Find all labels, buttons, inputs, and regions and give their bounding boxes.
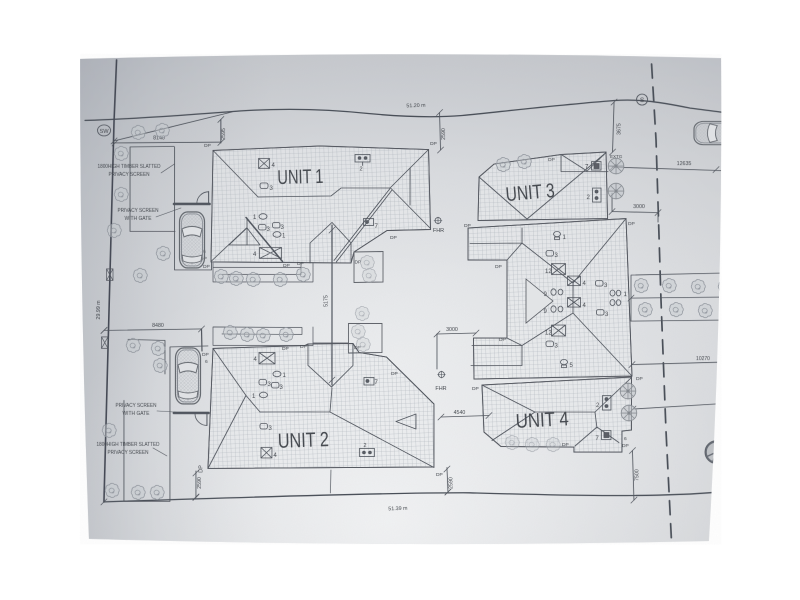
unit 2 porch gable: [308, 343, 353, 387]
unit 2 vent symbols: [252, 352, 379, 459]
svg-text:PRIVACY SCREEN: PRIVACY SCREEN: [115, 403, 156, 409]
unit 4 extension hip: [574, 427, 622, 452]
privacy screen annotations unit 1: [98, 164, 161, 222]
svg-text:PRIVACY SCREEN: PRIVACY SCREEN: [118, 208, 159, 214]
car 3: [694, 121, 746, 144]
dim 2595 entry: [221, 128, 227, 140]
north-west boundary segment: [114, 112, 232, 141]
privacy screen lines unit 1: [130, 146, 175, 231]
unit 2 valley to porch: [330, 388, 332, 412]
svg-text:WITH GATE: WITH GATE: [122, 411, 149, 417]
unit 1 terrace: [213, 263, 313, 282]
svg-text:DP: DP: [283, 263, 290, 269]
svg-text:3000: 3000: [633, 204, 645, 210]
central building vent symbols: [543, 231, 627, 369]
entry fence unit 2: [200, 329, 203, 351]
right horizontal line at y406: [633, 404, 722, 410]
unit 3 roof hatched: [478, 152, 608, 221]
gate unit 2: [174, 412, 209, 415]
unit 1 porch gable: [310, 222, 351, 263]
svg-text:7500: 7500: [634, 469, 640, 481]
entry dim line unit 1: [220, 119, 222, 142]
unit 2 roof hatched: [208, 343, 434, 468]
svg-text:DP: DP: [548, 157, 555, 163]
privacy screen lines unit 2: [124, 339, 170, 501]
dim 10270: [629, 356, 722, 368]
unit 1 hip to corner: [211, 228, 247, 262]
FHR unit 1: [433, 217, 444, 234]
svg-text:PRIVACY SCREEN: PRIVACY SCREEN: [109, 172, 150, 178]
svg-text:DP: DP: [297, 261, 304, 267]
unit 1 valley pair: [334, 188, 392, 262]
trees unit2 terrace: [223, 325, 237, 339]
svg-text:2595: 2595: [221, 128, 227, 140]
unit 3 vent symbols: [585, 162, 601, 203]
dim 4540: [438, 410, 492, 420]
driveway lines unit 1: [175, 206, 212, 270]
svg-text:51.20 m: 51.20 m: [406, 103, 426, 110]
dim 2590 top right: [437, 110, 448, 154]
unit 1 NE hip: [390, 149, 429, 188]
svg-text:SW: SW: [100, 129, 110, 135]
dim 2590 bottom left: [193, 465, 205, 500]
svg-text:DP: DP: [282, 346, 289, 352]
unit 1 alfresco court: [354, 251, 383, 282]
svg-text:DP: DP: [391, 371, 398, 377]
svg-text:5175: 5175: [323, 295, 329, 307]
gate swing arc unit 1: [197, 192, 209, 204]
dim 3675: [610, 99, 623, 155]
driveway lines unit 2: [170, 346, 208, 414]
svg-text:2: 2: [360, 166, 363, 172]
unit 4 roof hatched: [482, 377, 632, 452]
svg-text:DP: DP: [622, 443, 629, 449]
unit 2 gable right: [396, 414, 416, 429]
central bottom wing lines: [471, 338, 522, 366]
path line below unit 2: [329, 470, 332, 493]
fence post 2: [101, 337, 108, 349]
svg-text:WITH GATE: WITH GATE: [125, 216, 152, 222]
svg-text:4540: 4540: [454, 410, 466, 416]
svg-text:UNIT 4: UNIT 4: [515, 408, 569, 433]
dim 3000 mid: [434, 327, 479, 369]
boundary ticks: [101, 138, 722, 505]
trees left column: [131, 125, 145, 139]
unit 3 top-right box: [561, 153, 608, 172]
right side parking rows: [631, 273, 722, 321]
trees near unit4: [620, 383, 636, 399]
unit 1 roof hatched: [211, 146, 431, 263]
svg-text:12635: 12635: [677, 161, 692, 167]
svg-text:DP: DP: [464, 223, 471, 229]
dim 12635: [610, 161, 722, 173]
svg-text:DP: DP: [499, 337, 506, 343]
south boundary line: [104, 492, 719, 502]
gate swing arc unit 2: [195, 413, 207, 425]
svg-text:PRIVACY SCREEN: PRIVACY SCREEN: [107, 450, 148, 456]
fence post 1: [107, 269, 114, 281]
svg-text:2590: 2590: [448, 477, 454, 489]
unit 1 vent symbols: [253, 154, 379, 258]
dim 3000 unit3: [609, 193, 661, 222]
central top wing lines: [470, 228, 522, 260]
dim 8480: [101, 323, 205, 334]
trees above unit3: [496, 157, 510, 171]
svg-text:2: 2: [363, 443, 366, 449]
gate leaf unit 1: [208, 192, 210, 204]
unit 2 terrace: [213, 327, 349, 346]
trees right parking rows: [634, 278, 648, 292]
svg-text:DP: DP: [198, 465, 204, 473]
svg-text:2590: 2590: [197, 477, 203, 489]
right lower horizontals: [630, 298, 632, 321]
svg-text:DP: DP: [562, 442, 569, 448]
unit 2 NE hip: [386, 357, 434, 404]
svg-text:8480: 8480: [152, 323, 164, 329]
unit 2 SE diagonal: [330, 412, 434, 468]
svg-text:UNIT 1: UNIT 1: [277, 166, 324, 189]
svg-text:DP: DP: [204, 143, 211, 149]
unit 3 hips: [479, 153, 606, 220]
car 2: [175, 348, 200, 404]
privacy screen annotations unit 2: [96, 403, 159, 456]
gate unit 1: [174, 203, 210, 206]
SW symbol: [98, 125, 111, 136]
svg-text:DP: DP: [300, 344, 307, 350]
svg-text:3675: 3675: [617, 123, 623, 135]
unit 4 vent symbols: [595, 396, 611, 443]
svg-text:2590: 2590: [441, 128, 447, 140]
unit 1 NW hip: [213, 150, 258, 197]
dim 5175: [323, 225, 335, 385]
central X diagonals: [522, 219, 632, 377]
svg-text:3000: 3000: [446, 327, 458, 333]
unit 1 garage ridge vertical: [246, 218, 248, 245]
svg-text:12: 12: [545, 331, 552, 337]
unit 2 alfresco court: [348, 323, 382, 353]
svg-text:10270: 10270: [696, 356, 710, 362]
svg-text:29.99 m: 29.99 m: [96, 300, 102, 320]
unit 2 ridge: [260, 411, 330, 413]
svg-text:FHR: FHR: [433, 228, 444, 234]
trees middle court: [351, 255, 376, 351]
svg-text:S: S: [640, 97, 645, 104]
central building roof hatched: [468, 219, 632, 380]
svg-text:6: 6: [205, 359, 208, 365]
svg-text:UNIT 3: UNIT 3: [505, 180, 556, 206]
svg-text:6: 6: [624, 436, 627, 442]
west boundary line: [104, 60, 117, 502]
unit 1 gable base: [409, 168, 411, 205]
unit 1 SE diagonal: [391, 188, 431, 228]
svg-text:DP: DP: [628, 221, 635, 227]
dim 7500 bottom right: [629, 448, 640, 504]
street kerb line: [85, 100, 721, 121]
dim 2590 bottom right: [444, 466, 455, 495]
svg-text:DP: DP: [472, 386, 479, 392]
svg-text:12: 12: [545, 269, 552, 275]
unit 1 garage gable: [229, 228, 260, 245]
unit 4 hips: [482, 378, 632, 441]
unit 1 SW hip thick: [246, 217, 283, 261]
dim 8140: [112, 135, 221, 146]
svg-text:DP: DP: [203, 264, 210, 270]
gate leaf unit 2: [206, 413, 208, 425]
svg-text:1800HIGH TIMBER SLATTED: 1800HIGH TIMBER SLATTED: [98, 164, 161, 170]
svg-text:DP: DP: [202, 352, 209, 358]
svg-text:DP: DP: [636, 376, 643, 382]
unit 1 ridge: [258, 188, 390, 197]
svg-text:FHR: FHR: [435, 386, 446, 392]
svg-text:1800HIGH TIMBER SLATTED: 1800HIGH TIMBER SLATTED: [96, 442, 159, 448]
paper sheet: [80, 54, 721, 544]
unit 2 hips left: [208, 348, 260, 468]
svg-text:UNIT 2: UNIT 2: [277, 428, 329, 453]
svg-text:DP: DP: [430, 141, 437, 147]
svg-text:DP: DP: [390, 235, 397, 241]
svg-text:DP: DP: [495, 264, 502, 270]
east dashed easement line: [651, 64, 671, 540]
car 1: [180, 212, 205, 268]
svg-text:51.39 m: 51.39 m: [388, 506, 408, 513]
trees unit1 terrace: [214, 269, 228, 283]
FHR unit 2: [435, 371, 446, 392]
central courtyard gable: [526, 279, 553, 323]
S symbol: [637, 94, 648, 105]
DP labels: [200, 141, 643, 478]
svg-text:DP: DP: [436, 472, 443, 478]
tree bottom right edge: [705, 441, 728, 464]
